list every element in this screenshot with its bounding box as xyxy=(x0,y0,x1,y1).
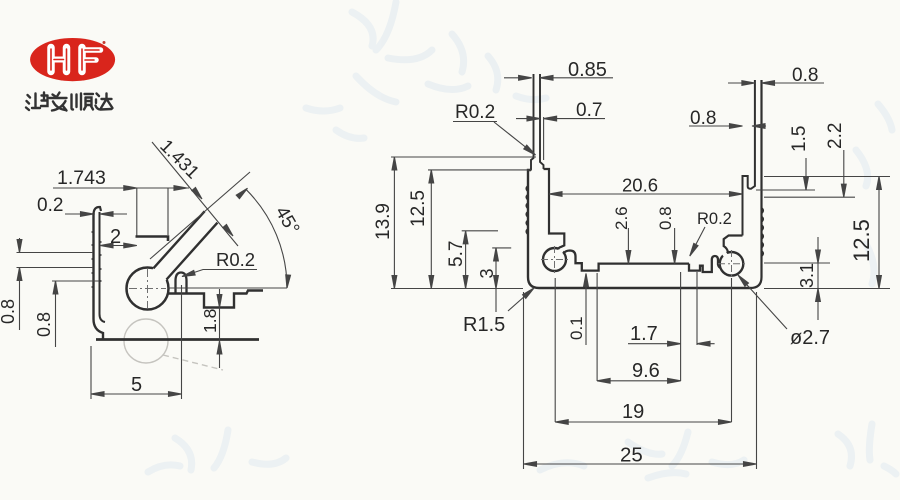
knob crosshairs xyxy=(541,246,745,277)
left wall outer xyxy=(528,170,539,288)
svg-text:0.85: 0.85 xyxy=(568,59,607,81)
left profile: 45 deg arm xyxy=(144,211,218,290)
bottom extension lines xyxy=(524,272,757,469)
leader dia 2.7 xyxy=(736,273,787,329)
left profile: thumb bump xyxy=(176,273,187,294)
dim 25 xyxy=(524,462,757,467)
left profile: ball xyxy=(127,268,169,310)
company name 鸿发顺达 (hand drawn strokes) xyxy=(26,93,113,111)
svg-text:2.6: 2.6 xyxy=(612,206,631,230)
R0.2 inner xyxy=(688,227,705,257)
45 degree reference lines and arc xyxy=(150,172,291,288)
HF logo ellipse xyxy=(30,38,115,81)
char fa xyxy=(50,93,67,111)
svg-text:1.5: 1.5 xyxy=(789,126,810,152)
svg-text:0.8: 0.8 xyxy=(656,206,675,230)
dim 19 xyxy=(555,420,731,425)
svg-text:0.8: 0.8 xyxy=(690,108,716,129)
dim 5.7 xyxy=(462,231,498,289)
svg-text:1.7: 1.7 xyxy=(630,323,658,345)
svg-text:1.8: 1.8 xyxy=(200,309,220,333)
svg-text:0.8: 0.8 xyxy=(0,299,18,324)
dim 0.2 xyxy=(65,212,127,217)
dim 9.6 xyxy=(597,378,681,383)
svg-text:0.1: 0.1 xyxy=(567,316,586,340)
R0.2 label left drawing xyxy=(181,270,257,279)
dim 5 xyxy=(91,285,182,399)
floor right groove and finger xyxy=(689,256,720,272)
svg-text:R1.5: R1.5 xyxy=(463,314,505,336)
left profile: wall xyxy=(92,207,106,339)
char shun xyxy=(72,94,94,110)
right wall inner xyxy=(743,80,755,236)
svg-text:0.2: 0.2 xyxy=(37,195,63,216)
dim 3 xyxy=(492,248,511,312)
bottom-left extension line xyxy=(391,288,523,290)
dim 12.5 left xyxy=(428,170,532,289)
HF logo letters xyxy=(51,48,101,72)
dim 2.2 xyxy=(764,150,855,197)
dim 0.7 xyxy=(516,116,605,160)
svg-text:3.1: 3.1 xyxy=(797,263,817,288)
left profile: bottom plate xyxy=(96,338,259,341)
dim 1.743 xyxy=(53,186,189,236)
svg-text:3: 3 xyxy=(477,268,497,278)
bottom xyxy=(539,287,751,290)
watermark strokes xyxy=(148,2,896,478)
dim 20.6 xyxy=(549,192,743,197)
right knob to ledge xyxy=(724,236,743,253)
svg-text:ø2.7: ø2.7 xyxy=(790,327,830,349)
svg-text:R0.2: R0.2 xyxy=(455,102,495,123)
right ext lines and dim 12.5 right xyxy=(764,177,890,289)
knob slot erasers xyxy=(557,246,728,258)
svg-text:5: 5 xyxy=(131,374,142,396)
dim 0.8 inner xyxy=(672,228,677,264)
R1.5 leader xyxy=(508,286,536,311)
dim 1.7 xyxy=(628,341,715,346)
left knob circle xyxy=(543,248,566,271)
svg-text:12.5: 12.5 xyxy=(408,190,429,227)
dim 1.431 diagonal xyxy=(152,142,238,246)
dim 1.8 xyxy=(217,289,222,368)
char hong xyxy=(26,93,48,111)
svg-text:2.2: 2.2 xyxy=(825,123,846,149)
svg-text:0.8: 0.8 xyxy=(792,65,818,86)
ball crosshair xyxy=(129,269,166,308)
left fin xyxy=(531,74,544,170)
svg-text:13.9: 13.9 xyxy=(373,203,394,240)
svg-text:1.743: 1.743 xyxy=(57,167,106,189)
right wall serrations xyxy=(762,208,764,256)
svg-text:R0.2: R0.2 xyxy=(697,210,732,228)
dim 0.1 xyxy=(584,274,589,287)
dim 0.8 top right xyxy=(728,81,824,86)
svg-text:2: 2 xyxy=(110,226,121,248)
svg-text:R0.2: R0.2 xyxy=(216,249,255,270)
svg-text:0.8: 0.8 xyxy=(34,312,54,337)
right fin outer / wall outer xyxy=(751,80,762,288)
ghost circle artifact xyxy=(124,319,223,370)
left profile: right block top with notch xyxy=(164,291,263,308)
left wall serrations xyxy=(526,186,528,234)
logo registered mark xyxy=(103,41,106,44)
R0.2 top left xyxy=(494,122,537,157)
svg-text:5.7: 5.7 xyxy=(446,241,467,267)
svg-text:0.7: 0.7 xyxy=(576,100,602,121)
dim 0.85 xyxy=(504,75,613,80)
svg-text:9.6: 9.6 xyxy=(632,360,660,382)
svg-text:25: 25 xyxy=(620,444,643,467)
dim 2.6 inner xyxy=(626,228,631,264)
svg-text:20.6: 20.6 xyxy=(622,175,658,196)
dim 2 xyxy=(100,243,137,248)
right profile outline xyxy=(526,74,763,288)
svg-text:19: 19 xyxy=(622,401,644,423)
thick bar under 1.743 scaffold xyxy=(136,237,169,242)
dim 0.8 upper left of right wall xyxy=(689,124,766,129)
wall serration ticks xyxy=(92,232,94,287)
left wall inner + ledge xyxy=(544,169,565,249)
dim 1.5 xyxy=(756,158,815,190)
char da xyxy=(96,94,113,110)
dim 3.1 xyxy=(764,237,830,320)
dim 0.8 left pair xyxy=(17,238,100,347)
svg-text:12.5: 12.5 xyxy=(849,219,874,262)
floor from left knob to platform xyxy=(564,251,689,271)
dim 13.9 xyxy=(391,157,536,289)
right knob circle xyxy=(720,252,744,276)
